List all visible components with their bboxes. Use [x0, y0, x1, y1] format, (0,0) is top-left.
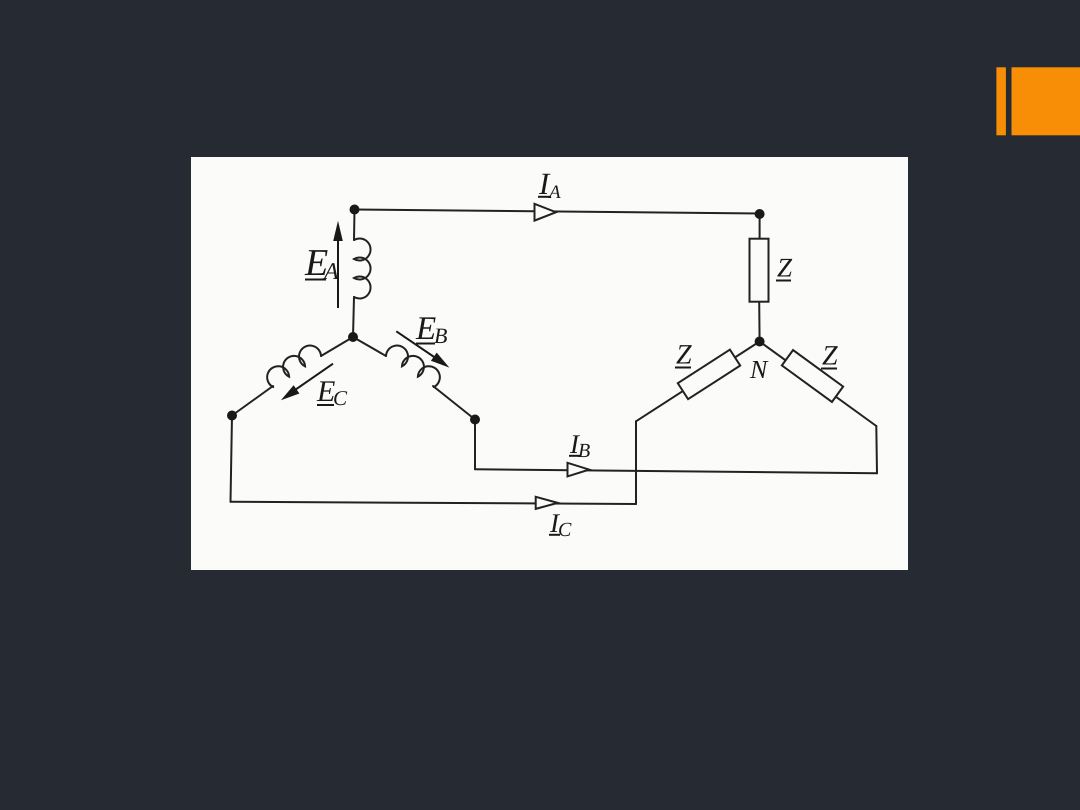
wire: top line A	[355, 210, 760, 214]
node: source terminal B	[470, 415, 480, 425]
svg-text:C: C	[558, 519, 572, 541]
label Z phase B	[821, 341, 838, 372]
current arrow I_A	[535, 204, 557, 221]
current arrow I_B	[568, 463, 590, 477]
label E_C	[316, 375, 348, 410]
node: source terminal A	[350, 205, 360, 215]
wire: E_B upper stub	[353, 337, 386, 356]
label E_A	[304, 242, 339, 285]
wire: line B	[475, 469, 877, 473]
wire: E_C upper stub	[321, 337, 353, 356]
impedance Z_B (right diagonal rectangle)	[782, 350, 843, 402]
node: source terminal C	[227, 411, 237, 421]
inductor winding E_B	[385, 341, 444, 388]
svg-text:B: B	[434, 323, 447, 348]
label E_B	[415, 311, 447, 348]
label I_C	[549, 508, 572, 541]
orange accent thin bar	[996, 67, 1006, 135]
label I_A	[538, 166, 561, 203]
inductor winding E_A	[354, 239, 371, 299]
wire: load right leg diagonal	[760, 342, 877, 427]
svg-text:Z: Z	[822, 341, 838, 372]
wire: E_A lower stub	[353, 297, 354, 337]
svg-text:E: E	[415, 311, 436, 347]
emf arrow E_B	[396, 331, 449, 367]
impedance Z_A (vertical rectangle)	[750, 239, 769, 302]
inductor winding E_C	[263, 341, 322, 388]
impedance Z_C (left diagonal rectangle)	[678, 350, 740, 400]
svg-text:B: B	[578, 440, 590, 462]
orange accent block	[1012, 67, 1080, 135]
wire: load left leg vertical	[635, 421, 637, 504]
node: load neutral N	[755, 337, 765, 347]
wire: load right leg vertical	[875, 426, 878, 473]
label Z phase C	[675, 340, 692, 371]
wire: stub above impedance Z_A	[759, 214, 761, 239]
svg-text:Z: Z	[676, 340, 692, 371]
wire: bottom line C	[231, 502, 637, 504]
wire: left drop from C winding	[231, 416, 233, 502]
svg-text:A: A	[322, 259, 339, 285]
wire: stub below impedance Z_A	[758, 302, 760, 342]
svg-text:A: A	[547, 182, 561, 203]
emf arrow E_A	[333, 221, 343, 308]
node: source star point	[348, 332, 358, 342]
node: load terminal A	[755, 209, 765, 219]
svg-text:C: C	[333, 386, 348, 410]
label Z phase A	[776, 253, 793, 283]
wire: load left leg diagonal	[636, 342, 760, 422]
emf arrow E_C	[281, 364, 333, 401]
wire: E_B lower stub	[433, 386, 475, 420]
wire: E_C lower stub	[232, 386, 273, 416]
svg-text:Z: Z	[777, 253, 793, 283]
current arrow I_C	[536, 497, 558, 509]
wire: drop from B winding	[474, 420, 476, 470]
svg-text:N: N	[749, 355, 769, 384]
wire: E_A upper stub	[353, 210, 356, 241]
label I_B	[569, 429, 590, 462]
scanned figure panel	[191, 157, 908, 570]
